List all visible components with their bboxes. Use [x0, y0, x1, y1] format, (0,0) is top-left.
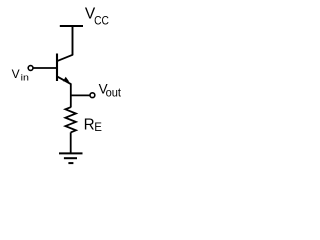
terminal vout — [90, 93, 95, 98]
wire collector to VCC — [72, 26, 74, 55]
label vin — [12, 67, 29, 83]
svg-text:R: R — [84, 117, 95, 134]
wire resistor to ground — [70, 132, 72, 153]
ground — [59, 153, 83, 163]
svg-text:V: V — [12, 67, 20, 81]
terminal vin — [28, 66, 33, 71]
wire base — [33, 67, 56, 69]
svg-text:in: in — [21, 73, 29, 83]
wire vout — [71, 94, 90, 96]
svg-text:E: E — [94, 122, 102, 134]
label RE — [84, 117, 103, 134]
svg-text:out: out — [106, 86, 122, 100]
svg-text:CC: CC — [94, 13, 109, 27]
transistor Q1 — [57, 54, 73, 85]
label vout — [99, 82, 122, 100]
resistor RE — [65, 107, 76, 132]
wire emitter — [70, 84, 72, 108]
power rail VCC bar — [60, 25, 83, 27]
label VCC — [85, 6, 109, 28]
